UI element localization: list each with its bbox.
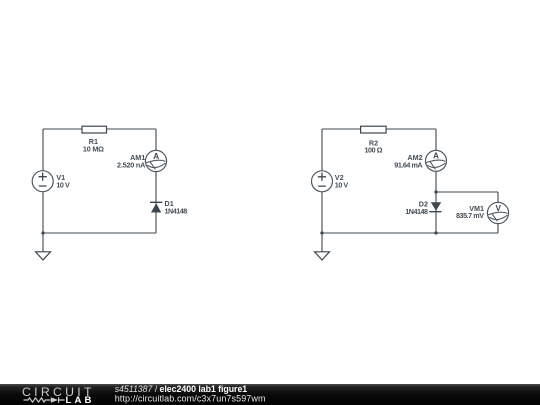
svg-text:LAB: LAB [66, 395, 94, 405]
svg-text:http://circuitlab.com/c3x7un7s: http://circuitlab.com/c3x7un7s597wm [115, 394, 266, 404]
svg-text:s4511387 / elec2400 lab1 figur: s4511387 / elec2400 lab1 figure1 [115, 384, 248, 394]
